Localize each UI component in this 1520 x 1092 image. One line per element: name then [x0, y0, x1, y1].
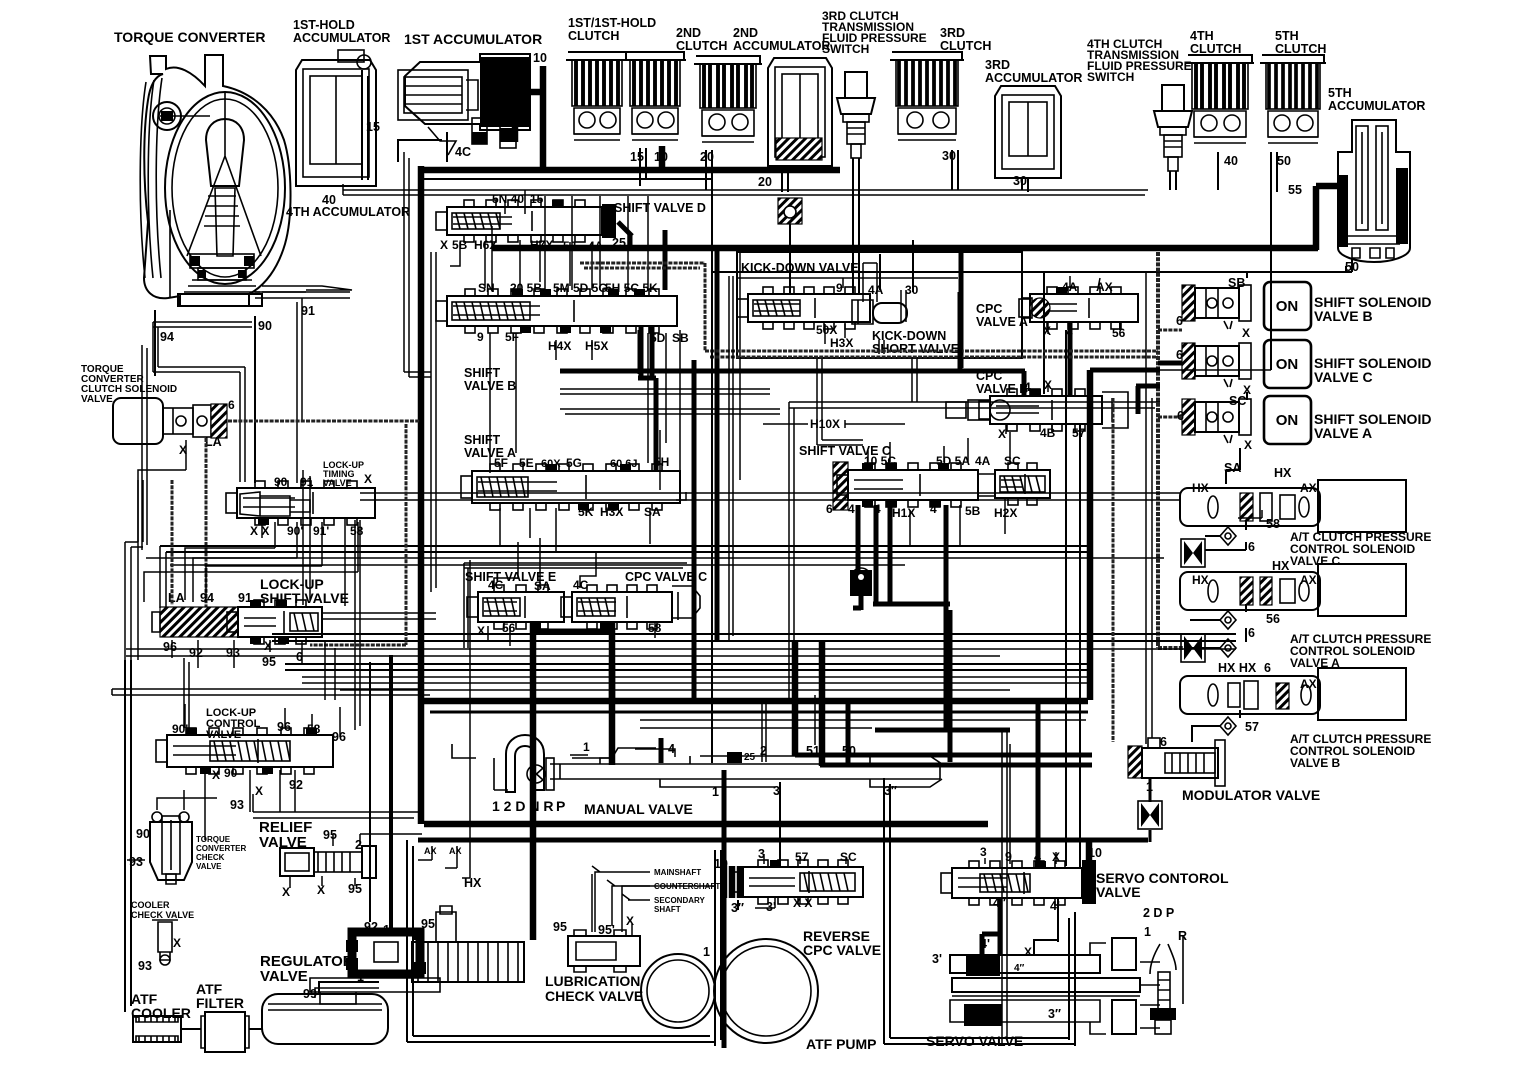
wire 3 double-prime down [737, 900, 739, 910]
svg-text:6: 6 [228, 398, 235, 412]
wire 50 from 5th accumulator [712, 258, 1352, 272]
svg-text:4B: 4B [1040, 426, 1056, 440]
svg-text:VALVE B: VALVE B [1290, 756, 1341, 770]
wire 20 under 2nd clutch [706, 150, 712, 190]
ATF cooler [133, 1016, 181, 1042]
wire 40 under 4th accumulator [323, 185, 343, 187]
diamond fitting 56 [1220, 611, 1236, 629]
svg-text:H1X: H1X [892, 506, 915, 520]
wire 30 under 3rd accumulator [1022, 178, 1028, 192]
svg-text:VALVE C: VALVE C [1314, 369, 1373, 385]
svg-text:3RD: 3RD [985, 58, 1010, 72]
vertical thick drop 950 [948, 610, 953, 762]
svg-text:X: X [998, 427, 1006, 441]
svg-text:CPC VALVE: CPC VALVE [803, 942, 881, 958]
wire from torque converter 91 [255, 292, 350, 483]
wire from torque converter 94 [154, 310, 156, 376]
wire 56 from CPC valve A [1119, 322, 1121, 330]
wire 4 thick from shift valve E [530, 622, 537, 940]
torque converter check valve [150, 812, 192, 884]
svg-text:SC: SC [840, 850, 857, 864]
svg-text:MAINSHAFT: MAINSHAFT [654, 868, 701, 877]
svg-text:57: 57 [1072, 426, 1086, 440]
lock-up control valve [156, 728, 333, 774]
svg-text:5E: 5E [519, 456, 534, 470]
svg-text:5F: 5F [494, 456, 508, 470]
box left edge shift valve B group [431, 252, 436, 592]
double horizontals 390 410 [560, 389, 780, 414]
svg-text:MODULATOR VALVE: MODULATOR VALVE [1182, 787, 1320, 803]
wires under CPC valve C [488, 622, 655, 646]
wire 57 from CPC valve B [1079, 424, 1081, 868]
wires at lubrication check valve [592, 874, 714, 936]
diamond fitting 57 [1220, 717, 1236, 735]
wires to shafts [592, 866, 650, 932]
svg-text:VALVE: VALVE [260, 968, 308, 985]
wire 3 vertical [780, 782, 890, 955]
svg-text:4TH ACCUMULATOR: 4TH ACCUMULATOR [286, 205, 410, 219]
svg-text:H5X: H5X [585, 339, 608, 353]
wires at CPC valve B [1006, 384, 1052, 434]
svg-text:SHIFT: SHIFT [464, 433, 500, 447]
svg-text:AX: AX [1300, 677, 1317, 691]
wires under lock-up shift valve [172, 640, 302, 668]
servo valve right extension [1140, 962, 1160, 1028]
svg-text:5N 40: 5N 40 [492, 192, 524, 206]
svg-text:SHIFT VALVE: SHIFT VALVE [260, 590, 349, 606]
svg-text:15: 15 [366, 120, 380, 134]
svg-text:SA: SA [534, 579, 551, 593]
vertical speckled right [1112, 398, 1115, 742]
wire 20 vertical right [711, 180, 713, 272]
AX HX stubs [418, 560, 470, 878]
check ball filter [850, 570, 872, 596]
shift solenoid valve B [1182, 282, 1311, 330]
2nd accumulator [768, 58, 832, 166]
wires at TC check valve [127, 790, 217, 860]
svg-text:56: 56 [502, 621, 516, 635]
servo control valve [941, 861, 1082, 905]
svg-text:X: X [626, 914, 634, 928]
wires from lockup control to bottom [205, 784, 295, 840]
svg-text:5H 5C 5K: 5H 5C 5K [605, 281, 658, 295]
svg-text:3': 3' [932, 952, 942, 966]
svg-text:ATF PUMP: ATF PUMP [806, 1036, 877, 1052]
speckled branch B [1158, 329, 1182, 332]
svg-text:ON: ON [1276, 356, 1299, 373]
svg-text:CLUTCH: CLUTCH [940, 39, 991, 53]
svg-text:92: 92 [364, 920, 378, 934]
shift valve B [436, 289, 677, 333]
svg-text:10: 10 [533, 51, 547, 65]
wire 10 thick from 1st accumulator [515, 66, 543, 170]
svg-text:94: 94 [160, 330, 174, 344]
speckled vertical 406 [310, 424, 406, 645]
wire from shift valve D 25 to main [618, 222, 632, 248]
svg-text:X: X [440, 238, 448, 252]
wires under lock-up control valve [205, 770, 295, 798]
1st accumulator [398, 54, 530, 155]
relief valve [280, 846, 376, 878]
wires above shift valve E [494, 538, 596, 588]
vertical pair right CPC [1065, 330, 1067, 866]
double vertical 729 [729, 276, 733, 640]
wires above lock-up control valve [185, 704, 340, 737]
check fitting small 2 [500, 112, 516, 148]
CPC valve C [561, 585, 672, 629]
svg-text:6: 6 [1248, 626, 1255, 640]
vertical right 1146 [1146, 272, 1152, 744]
wire 90-prime vertical [184, 658, 189, 728]
svg-text:X: X [255, 784, 263, 798]
wire 10 thick drop [1086, 842, 1093, 862]
svg-text:4A: 4A [975, 454, 991, 468]
svg-text:4C: 4C [573, 578, 589, 592]
thick wires under shift valve C [858, 505, 950, 728]
svg-text:HX: HX [1272, 559, 1290, 573]
svg-text:5TH: 5TH [1328, 86, 1352, 100]
svg-text:SA: SA [1224, 461, 1241, 475]
thick bridge shift valve E to CPC C [530, 624, 612, 631]
svg-text:X: X [1244, 438, 1252, 452]
cooler check valve [152, 920, 178, 965]
svg-text:95': 95' [598, 923, 615, 937]
svg-text:CLUTCH: CLUTCH [568, 29, 619, 43]
svg-text:90': 90' [172, 722, 188, 736]
svg-text:AX: AX [1300, 573, 1317, 587]
svg-text:25: 25 [612, 236, 626, 250]
svg-text:9: 9 [477, 330, 484, 344]
wires under shift valve B [490, 333, 666, 473]
branch A [1158, 416, 1182, 419]
torque converter [140, 55, 352, 306]
svg-text:LUBRICATION: LUBRICATION [545, 973, 640, 989]
svg-text:40: 40 [1224, 154, 1238, 168]
box frame shift valve C group [789, 402, 1160, 700]
servo valve assembly [950, 938, 1140, 1034]
svg-text:50: 50 [1277, 154, 1291, 168]
2nd accumulator piston fitting [778, 198, 802, 224]
wires routing lockup timing to lockup shift [144, 548, 358, 602]
svg-text:TORQUE: TORQUE [196, 835, 231, 844]
wire bundle mid2 [126, 649, 1236, 656]
svg-text:92: 92 [289, 778, 303, 792]
svg-text:60X: 60X [541, 458, 561, 470]
svg-text:X: X [364, 472, 372, 486]
svg-text:3RD: 3RD [940, 26, 965, 40]
svg-text:HX: HX [1274, 466, 1292, 480]
wire 20 under 2nd accumulator [782, 166, 788, 192]
svg-text:SC: SC [1229, 394, 1246, 408]
wire thick main pressure line [492, 245, 1318, 252]
svg-text:VALVE B: VALVE B [976, 382, 1028, 396]
svg-text:91: 91 [301, 304, 315, 318]
wires at CPC valve A [1048, 276, 1100, 334]
wire 30 under 3rd clutch [952, 150, 958, 190]
svg-text:5B: 5B [965, 504, 981, 518]
svg-text:6: 6 [1176, 348, 1183, 362]
shift solenoid valve A [1182, 396, 1311, 444]
svg-text:55: 55 [1288, 183, 1302, 197]
frame box bottom left [407, 840, 721, 1046]
svg-text:4: 4 [930, 502, 937, 516]
svg-text:1: 1 [583, 740, 590, 754]
svg-text:CHECK VALVE: CHECK VALVE [131, 910, 194, 920]
svg-text:AX: AX [424, 846, 437, 856]
wire thick top feed [421, 166, 840, 824]
svg-text:SHAFT: SHAFT [654, 905, 681, 914]
svg-text:H4X: H4X [548, 339, 571, 353]
svg-text:4C: 4C [455, 145, 471, 159]
svg-text:6: 6 [1248, 540, 1255, 554]
svg-text:ON: ON [1276, 298, 1299, 315]
wires at manual valve [570, 749, 675, 757]
svg-text:25: 25 [744, 752, 756, 763]
wire speckled to lock-up hatch [171, 480, 174, 605]
svg-text:4: 4 [848, 502, 855, 516]
svg-text:94: 94 [200, 591, 214, 605]
ATF filter [201, 1012, 249, 1052]
wire bundle h2 [160, 546, 1090, 552]
manual valve detent [494, 735, 554, 792]
wire from solenoid C [1205, 520, 1246, 550]
svg-text:1: 1 [1144, 925, 1151, 939]
svg-text:20 5B: 20 5B [510, 281, 542, 295]
svg-text:CLUTCH: CLUTCH [1275, 42, 1326, 56]
svg-text:96: 96 [163, 640, 177, 654]
wire SA down [1226, 448, 1240, 484]
svg-text:92: 92 [189, 646, 203, 660]
thick horizontal 373 [560, 292, 1025, 396]
svg-text:KICK-DOWN VALVE: KICK-DOWN VALVE [741, 261, 859, 275]
shift valve C [837, 463, 978, 507]
svg-text:ACCUMULATOR: ACCUMULATOR [985, 71, 1082, 85]
svg-text:56: 56 [1112, 326, 1126, 340]
diamond fitting mid [1220, 639, 1236, 657]
svg-text:93: 93 [138, 959, 152, 973]
svg-text:93: 93 [230, 798, 244, 812]
SC valve extension [995, 463, 1050, 505]
svg-text:AX: AX [449, 846, 462, 856]
wire horizontal 370 right [1146, 369, 1271, 371]
A/T clutch pressure control solenoid valve B assembly [1180, 668, 1406, 720]
manual valve frame [424, 821, 988, 828]
svg-text:15: 15 [630, 150, 644, 164]
svg-text:60 6J: 60 6J [610, 458, 638, 470]
wire bundle h1 [360, 493, 1180, 500]
wire bundle h3 [146, 558, 1164, 565]
frame under manual valve [418, 838, 1148, 843]
shift valve E [467, 585, 564, 629]
svg-text:ACCUMULATOR: ACCUMULATOR [733, 39, 830, 53]
svg-text:30: 30 [942, 149, 956, 163]
svg-text:X: X [173, 936, 181, 950]
CPC valve A [1019, 287, 1138, 329]
diamond fitting 58 [1220, 527, 1236, 545]
torque converter clutch solenoid valve [113, 398, 163, 444]
svg-text:2ND: 2ND [676, 26, 701, 40]
svg-text:90: 90 [274, 475, 288, 489]
svg-text:X X: X X [793, 896, 812, 910]
H10X vertical pair [817, 358, 863, 445]
svg-text:CHECK: CHECK [196, 853, 225, 862]
svg-text:SB: SB [1228, 276, 1245, 290]
wire verticals left of torque converter [142, 345, 147, 550]
wire bundle mid4 [430, 711, 1088, 714]
svg-text:2ND: 2ND [733, 26, 758, 40]
A/T clutch pressure control solenoid valve C assembly [1180, 480, 1406, 532]
wire 15 long horizontal [420, 178, 712, 180]
svg-text:10: 10 [654, 150, 668, 164]
shift valve C hatched end [833, 462, 848, 510]
svg-text:20: 20 [700, 150, 714, 164]
svg-text:50: 50 [842, 744, 856, 758]
1st-hold accumulator [296, 60, 376, 186]
thick wires mid shift valve B [640, 230, 665, 374]
wires under shift valve A [500, 492, 686, 552]
svg-text:SWITCH: SWITCH [822, 42, 869, 56]
svg-text:P: P [556, 798, 565, 814]
svg-text:95: 95 [421, 917, 435, 931]
wires above shift valve C [868, 432, 1010, 462]
svg-text:VALVE: VALVE [1096, 884, 1141, 900]
wire SB up [1044, 272, 1247, 394]
wires right of lockup shift [325, 640, 335, 700]
lubrication check valve [568, 930, 640, 972]
wire SC link [1246, 392, 1248, 400]
svg-text:4': 4' [980, 937, 990, 951]
modulator valve [1128, 738, 1225, 786]
svg-text:SWITCH: SWITCH [1087, 70, 1134, 84]
wires at relief valve [290, 834, 422, 888]
svg-text:3: 3 [980, 845, 987, 859]
svg-text:51: 51 [806, 744, 820, 758]
wire lockup shift left entry [160, 546, 166, 608]
wires 15 10 under 1st clutch [640, 148, 646, 186]
wire bundle left extension [112, 689, 430, 695]
svg-text:1ST/1ST-HOLD: 1ST/1ST-HOLD [568, 16, 656, 30]
svg-text:56: 56 [1266, 612, 1280, 626]
wire 50 under 5th clutch [1271, 152, 1277, 370]
svg-text:3″: 3″ [1048, 1007, 1061, 1021]
svg-text:90: 90 [258, 319, 272, 333]
lock-up shift valve [160, 607, 238, 637]
wire 15 from 1st-hold accumulator [362, 70, 368, 180]
vertical thick drops middle [795, 640, 822, 766]
svg-text:H10X: H10X [810, 417, 840, 431]
ATF pump gear 2 [714, 939, 818, 1043]
svg-text:9: 9 [1005, 850, 1012, 864]
long verticals shift valve zone [660, 250, 740, 490]
vertical drops kick-down area [879, 340, 917, 402]
svg-text:90': 90' [287, 524, 303, 538]
wires under shift valve D [450, 190, 592, 290]
check fitting small 1 [472, 118, 487, 144]
side fitting C [1184, 541, 1202, 565]
wire from solenoid B bottom [1192, 710, 1240, 742]
wire bundle mid3 [302, 677, 1092, 690]
wire 2 port pair [762, 700, 766, 762]
kick-down short valve [873, 303, 907, 323]
wire 55 thick to 5th accumulator [1316, 186, 1338, 250]
svg-text:LA: LA [205, 435, 222, 449]
svg-text:30: 30 [905, 283, 919, 297]
svg-text:9: 9 [836, 281, 843, 295]
reverse CPC valve [722, 866, 744, 898]
lock-up timing valve [226, 481, 375, 525]
svg-text:HX: HX [464, 876, 482, 890]
1st/1st-hold clutch second pack [624, 52, 686, 140]
svg-text:VALVE C: VALVE C [1290, 554, 1341, 568]
svg-text:FILTER: FILTER [196, 995, 244, 1011]
wires above servo control valve [985, 744, 1056, 864]
wire 4 thick from CPC valve A [1068, 322, 1073, 396]
frame line above relief valve [253, 794, 420, 818]
svg-text:90: 90 [136, 827, 150, 841]
kick-down valve box [737, 252, 1022, 358]
modulator valve stem and cone [1149, 778, 1152, 802]
svg-text:H3X: H3X [600, 505, 623, 519]
svg-text:KICK-DOWN: KICK-DOWN [872, 329, 946, 343]
svg-text:50: 50 [1345, 260, 1359, 274]
svg-text:1: 1 [703, 945, 710, 959]
svg-text:95: 95 [323, 828, 337, 842]
shift lever [1150, 936, 1183, 1034]
svg-text:5G: 5G [566, 456, 582, 470]
wire thick bundle A [285, 664, 1092, 670]
speckled feed line to solenoids [1158, 252, 1185, 648]
3rd accumulator [995, 86, 1061, 178]
svg-text:CHECK VALVE: CHECK VALVE [545, 988, 643, 1004]
svg-text:96: 96 [277, 720, 291, 734]
thick vertical 716 [715, 250, 720, 640]
svg-text:4A: 4A [588, 239, 604, 253]
wires at regulator valve [370, 655, 390, 935]
wire thick vertical 392 [391, 655, 393, 935]
wire thick bundle B [424, 698, 1088, 705]
svg-text:X: X [1024, 945, 1032, 959]
svg-text:2 D P: 2 D P [1143, 906, 1174, 920]
wire 94 foot connector [153, 322, 252, 482]
svg-text:91: 91 [300, 475, 314, 489]
svg-text:5F: 5F [505, 330, 519, 344]
svg-text:SERVO VALVE: SERVO VALVE [926, 1033, 1023, 1049]
svg-text:H7X: H7X [530, 238, 553, 252]
CPC valve B [979, 389, 1102, 431]
svg-text:58: 58 [307, 722, 321, 736]
svg-text:CPC: CPC [976, 302, 1002, 316]
svg-text:93: 93 [226, 646, 240, 660]
svg-text:96: 96 [332, 730, 346, 744]
wire 50 vertical to bottom [711, 272, 713, 763]
long thick vertical 4 line [609, 665, 616, 701]
svg-text:X X: X X [250, 524, 269, 538]
svg-text:6: 6 [826, 502, 833, 516]
thick ports shift valve B down [638, 325, 656, 470]
svg-text:X: X [1242, 326, 1250, 340]
svg-text:58: 58 [350, 524, 364, 538]
svg-text:HX HX: HX HX [1218, 661, 1257, 675]
wire 6 line down from solenoid area [138, 440, 186, 660]
svg-text:VALVE A: VALVE A [464, 446, 516, 460]
speckled elbow 705 [580, 263, 1158, 357]
svg-text:HX: HX [1192, 481, 1209, 495]
svg-text:VALVE: VALVE [196, 862, 222, 871]
vertical thick 1090 [1087, 370, 1094, 700]
svg-text:20: 20 [758, 175, 772, 189]
4th clutch pressure switch [1154, 85, 1192, 171]
svg-text:SECONDARY: SECONDARY [654, 896, 705, 905]
